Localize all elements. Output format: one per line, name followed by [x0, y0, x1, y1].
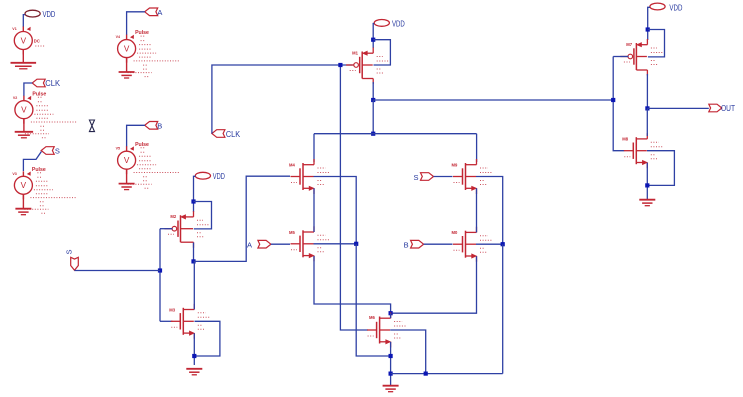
voltage source V5 (pulse) [116, 142, 180, 188]
voltage source V4 (pulse) [116, 30, 180, 76]
wire node X down to stack top [372, 100, 374, 134]
svg-text:M4: M4 [289, 163, 295, 168]
wire V5 port to source [127, 125, 145, 146]
wire right bulk rail down [502, 244, 504, 373]
svg-text:VDD: VDD [43, 10, 56, 19]
junction M6 source/bulk tie [389, 354, 393, 358]
svg-text:OUT: OUT [721, 104, 735, 113]
ground 0 (right inverter) [639, 200, 655, 206]
wire M2 bulk loop [194, 202, 212, 229]
transistor M4 (NMOS) [289, 159, 330, 194]
wire M4 bulk to bulk rail [314, 177, 357, 244]
wire V1 port to source [23, 15, 25, 27]
transistor M0 (NMOS) [452, 227, 493, 262]
power port VDD (left inverter) (VDD ellipse) [195, 172, 210, 179]
junction left bulk rail tee [354, 242, 358, 246]
junction OUT node [645, 106, 649, 110]
svg-text:V: V [21, 36, 27, 45]
wire M1 drain to node X [372, 82, 374, 100]
wire M0 bulk joins rail [476, 243, 503, 245]
svg-text:M5: M5 [289, 230, 295, 235]
wire A to M5 gate [271, 243, 290, 245]
voltage source V3 (pulse) [12, 167, 76, 213]
wire M1 bulk loop [373, 40, 390, 65]
svg-text:Pulse: Pulse [135, 142, 149, 148]
wire stub to M7 gate [613, 56, 628, 58]
wire V2 to ground [23, 119, 25, 132]
wire M5 bulk joins rail [314, 243, 357, 245]
ground 0 (V4) [119, 72, 135, 78]
wire M7 bulk loop [648, 30, 665, 57]
svg-text:V1: V1 [12, 27, 16, 31]
junction M7 source/bulk tie [646, 27, 650, 31]
port S (select) [421, 173, 434, 181]
wire V3 port to source [23, 152, 41, 172]
junction M1 source/bulk tie [371, 38, 375, 42]
ground 0 (main) [383, 386, 399, 392]
port CLK (input) [212, 130, 225, 138]
transistor M7 (PMOS) [620, 39, 663, 76]
ground 0 (V2) [15, 132, 33, 138]
svg-text:VDD: VDD [392, 19, 405, 28]
svg-text:S: S [55, 147, 60, 156]
svg-text:M2: M2 [170, 214, 176, 219]
port CLK (source) [32, 79, 45, 87]
wire S to M9 gate [434, 176, 453, 178]
wire VDD to M1 source [373, 24, 374, 49]
wire V3 to ground [22, 194, 24, 208]
junction right bulk rail tee [501, 242, 505, 246]
junction node Y (M6 drain) [389, 311, 393, 315]
wire left stack source to node Y [314, 256, 391, 313]
svg-text:V3: V3 [12, 172, 16, 176]
junction left inverter output [191, 259, 195, 263]
wire M8 drain to OUT node [646, 108, 648, 136]
junction M6 bulk at ground rail [424, 372, 428, 376]
svg-text:V: V [124, 45, 130, 54]
svg-text:Pulse: Pulse [135, 30, 149, 36]
svg-text:M6: M6 [369, 315, 375, 320]
wire to M3 drain [476, 134, 478, 162]
port OUT [709, 104, 722, 112]
svg-text:V: V [21, 106, 27, 115]
wire M4 source to M5 drain [313, 188, 315, 232]
wire M6 drain [390, 313, 392, 318]
ground 0 (V3) [15, 209, 31, 215]
svg-text:V4: V4 [116, 35, 120, 39]
svg-text:M7: M7 [626, 42, 632, 47]
wire B to M0 gate [424, 243, 453, 245]
voltage source V1 (dc) [12, 27, 45, 55]
port B (input) [411, 240, 424, 248]
transistor M1 (PMOS) [346, 48, 389, 85]
wire OUT [647, 107, 708, 109]
wire M8 bulk loop [647, 151, 674, 186]
junction CLK at M1 gate [338, 63, 342, 67]
wire M3 bulk loop [194, 321, 220, 356]
ground 0 (left inverter) [186, 369, 202, 375]
wire M9 source to M0 drain [476, 188, 478, 232]
svg-text:V5: V5 [116, 147, 120, 151]
transistor M2 (PMOS) [164, 211, 209, 248]
junction M3 source/bulk tie [192, 354, 196, 358]
svg-text:M8: M8 [622, 137, 628, 142]
svg-text:Pulse: Pulse [32, 167, 46, 173]
wire M2 drain to inverter output [193, 243, 195, 262]
transistor M9 (NMOS) [452, 159, 493, 194]
wire to M2 drain [313, 134, 315, 162]
junction stack top tee [371, 132, 375, 136]
hourglass cursor marker [89, 120, 94, 132]
wire left bulk rail down [356, 244, 390, 356]
svg-text:S: S [413, 173, 418, 182]
wire VDD to M7 source [648, 7, 650, 40]
svg-text:M1: M1 [352, 51, 358, 56]
wire V4 to ground [126, 58, 128, 72]
port A (input) [258, 240, 271, 248]
junction ground tee [389, 372, 393, 376]
svg-text:VDD: VDD [669, 3, 682, 12]
svg-text:M0: M0 [452, 230, 458, 235]
wire node X to right inverter gate [373, 99, 613, 101]
svg-text:VDD: VDD [213, 172, 225, 181]
transistor M6 (NMOS) [367, 313, 406, 348]
svg-text:V2: V2 [13, 96, 17, 100]
wire V4 port to source [127, 12, 145, 35]
wire V2 port to source [24, 83, 33, 96]
junction M2 source/bulk tie [191, 199, 195, 203]
wire CLK net: port up and across to M1 gate, down rail to M6 gate [212, 65, 353, 134]
wire V1 to ground [22, 50, 24, 63]
svg-text:CLK: CLK [226, 130, 241, 139]
wire M8 source to ground [646, 163, 648, 200]
svg-text:B: B [157, 122, 162, 131]
wire S input [75, 270, 161, 272]
wire M6 bulk to ground [390, 330, 426, 374]
port S (input) [71, 257, 79, 270]
svg-text:DC: DC [34, 39, 40, 44]
wire stack top rail [314, 133, 477, 135]
wire stub to M3 gate [160, 320, 173, 322]
port B (source) [145, 122, 158, 130]
junction node X split [371, 98, 375, 102]
wire M9 bulk to right bulk rail [476, 177, 503, 245]
power port VDD (source V1) (VDD ellipse) [25, 10, 40, 17]
svg-text:Pulse: Pulse [32, 91, 46, 97]
wire inverter gates vertical [159, 229, 161, 322]
port S (source) [41, 147, 54, 155]
svg-text:B: B [404, 241, 409, 250]
wire ground rail [391, 373, 503, 375]
svg-text:M9: M9 [452, 163, 458, 168]
transistor M8 (NMOS) [622, 133, 663, 168]
transistor M3 (NMOS) [169, 304, 210, 339]
svg-text:A: A [247, 240, 252, 249]
wire M3 source to ground [193, 333, 195, 365]
svg-text:V: V [21, 181, 27, 190]
power port VDD (right inverter) (VDD ellipse) [650, 3, 665, 10]
voltage source V2 (pulse) [13, 91, 77, 137]
wire V5 to ground [126, 169, 128, 183]
svg-text:M3: M3 [169, 307, 175, 312]
power port VDD (M1) (VDD ellipse) [374, 20, 389, 27]
wire M6 source to ground [390, 342, 392, 385]
junction inverter input tee [611, 98, 615, 102]
svg-text:S: S [65, 249, 74, 254]
wire M7 drain to OUT node [646, 74, 648, 108]
wire M3 drain up to output node [193, 261, 195, 309]
svg-text:V: V [124, 156, 130, 165]
port A (source) [145, 8, 158, 16]
svg-text:A: A [157, 8, 162, 17]
wire VDD to M9 source [194, 176, 196, 212]
transistor M5 (NMOS) [289, 226, 330, 261]
junction S input tee [158, 268, 162, 272]
ground 0 (V1) [11, 63, 37, 69]
wire stub to M2 gate [160, 228, 173, 230]
wire inverter output to M4 gate [194, 176, 291, 261]
ground 0 (V5) [119, 184, 135, 190]
junction M8 source/bulk tie [645, 183, 649, 187]
wire right stack source to node Y [391, 256, 477, 313]
svg-text:CLK: CLK [45, 79, 60, 88]
wire right inverter gate vertical [613, 57, 624, 151]
